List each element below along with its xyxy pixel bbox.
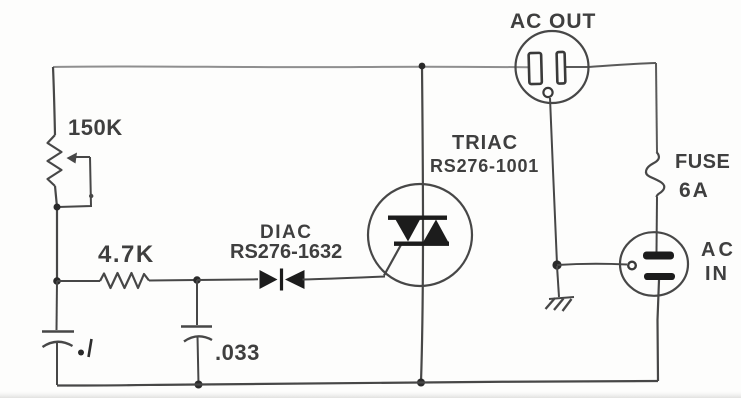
wire bottom rail — [57, 381, 658, 386]
outlet J1 ground hole — [543, 88, 552, 97]
wire triac vertical — [421, 66, 423, 382]
capacitor C1 bottom plate — [43, 342, 73, 347]
node wiper junction — [54, 204, 61, 211]
outlet J1 AC OUT circle — [516, 31, 589, 103]
diode DIAC D1 right triangle — [285, 270, 305, 289]
wire left rail upper — [53, 67, 55, 135]
wire right rail upper — [656, 63, 657, 152]
node bottom cap junction — [195, 381, 203, 389]
wire ground drop — [550, 98, 557, 264]
svg-text:RS276-1632: RS276-1632 — [230, 241, 342, 263]
capacitor C1 lead bottom — [56, 341, 58, 385]
wire gate lead — [384, 243, 402, 276]
triac Q1 top bar — [388, 216, 447, 220]
node left junction — [53, 277, 61, 285]
node ground junction — [552, 260, 561, 269]
wire node to DIAC — [197, 278, 258, 281]
triac Q1 circle — [368, 184, 472, 286]
svg-text:150K: 150K — [68, 115, 123, 140]
node bottom triac junction — [417, 379, 425, 387]
wire ground to plug — [557, 264, 627, 265]
node top junction — [419, 63, 426, 70]
svg-text:TRIAC: TRIAC — [452, 132, 518, 154]
wire 4.7K to node — [149, 279, 196, 282]
label .1 — [78, 350, 84, 356]
svg-text:6A: 6A — [679, 179, 710, 202]
svg-text:IN: IN — [705, 263, 729, 285]
outlet J1 right slot — [557, 52, 566, 84]
triac Q1 left triangle — [396, 220, 421, 242]
wire top rail right of outlet — [566, 63, 656, 67]
svg-text:.033: .033 — [215, 340, 260, 365]
node cap junction — [193, 276, 201, 284]
capacitor C1 .1 lead top — [56, 281, 59, 330]
bottom scan shadow band — [0, 390, 741, 398]
capacitor C2 top plate — [181, 325, 212, 327]
wiper wire — [58, 157, 91, 207]
svg-text:DIAC: DIAC — [260, 222, 312, 243]
capacitor C2 bottom plate — [184, 336, 212, 341]
svg-text:OUT: OUT — [549, 10, 596, 33]
triac Q1 right triangle — [424, 220, 449, 242]
plug P1 bottom prong — [644, 273, 675, 280]
diode DIAC D1 bar — [280, 269, 283, 291]
wire to 4.7K — [57, 280, 100, 282]
wire top rail — [53, 65, 528, 68]
plug P1 left terminal ring — [628, 262, 636, 270]
potentiometer R1 150K body — [48, 135, 62, 186]
wire DIAC to gate — [303, 277, 386, 280]
svg-text:AC: AC — [701, 239, 736, 261]
capacitor C2 lead bottom — [198, 336, 199, 384]
wire left rail middle — [55, 186, 57, 281]
capacitor C2 .033 lead top — [196, 280, 198, 325]
svg-text:AC: AC — [510, 10, 542, 33]
outlet J1 left slot — [529, 53, 542, 84]
ground stem — [557, 266, 559, 297]
svg-text:4.7K: 4.7K — [98, 241, 155, 268]
diode DIAC D1 left triangle — [260, 270, 278, 289]
triac Q1 bottom bar — [394, 242, 449, 246]
capacitor C1 top plate — [42, 330, 74, 332]
svg-text:FUSE: FUSE — [675, 151, 730, 173]
svg-text:RS276-1001: RS276-1001 — [430, 156, 539, 176]
fuse F1 — [646, 152, 664, 197]
resistor R2 4.7K — [100, 273, 149, 288]
wire fuse to plug — [656, 197, 659, 252]
plug P1 AC IN circle — [620, 232, 688, 296]
ground symbol — [549, 297, 574, 299]
potentiometer R1 wiper arrow — [74, 156, 90, 158]
plug P1 top prong — [643, 252, 674, 260]
wire plug bottom lead — [658, 280, 660, 381]
